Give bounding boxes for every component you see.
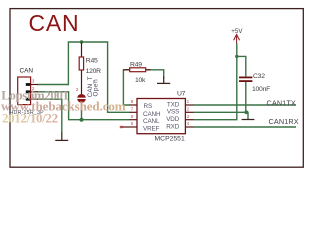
svg-text:VSS: VSS [167, 109, 179, 116]
svg-text:MCP2551: MCP2551 [155, 135, 185, 142]
svg-text:120R: 120R [86, 68, 102, 75]
svg-text:C32: C32 [253, 73, 265, 80]
svg-text:TXD: TXD [167, 101, 180, 108]
svg-text:CAN: CAN [29, 10, 80, 36]
svg-text:CAN: CAN [20, 68, 34, 75]
svg-text:CAN1TX: CAN1TX [267, 98, 296, 107]
svg-text:CANH: CANH [143, 111, 161, 118]
svg-text:10k: 10k [135, 77, 146, 84]
svg-text:U7: U7 [177, 90, 186, 97]
svg-text:RS: RS [144, 103, 153, 110]
svg-text:VREF: VREF [143, 125, 160, 132]
svg-text:R49: R49 [130, 61, 142, 68]
svg-text:100nF: 100nF [252, 86, 270, 93]
svg-text:CANL: CANL [143, 118, 160, 125]
svg-text:RXD: RXD [166, 123, 180, 130]
svg-text:2012/10/22: 2012/10/22 [2, 111, 58, 126]
svg-text:CAN1RX: CAN1RX [269, 117, 299, 126]
svg-text:R45: R45 [86, 58, 98, 65]
svg-text:VDD: VDD [166, 116, 180, 123]
svg-text:Open: Open [92, 79, 99, 97]
svg-text:+5V: +5V [231, 28, 243, 35]
